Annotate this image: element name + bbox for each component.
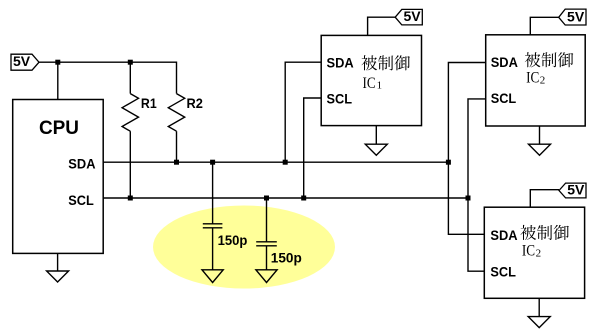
svg-text:SDA: SDA [68, 155, 95, 171]
svg-text:R2: R2 [187, 95, 204, 111]
svg-text:5V: 5V [403, 8, 421, 24]
svg-text:SDA: SDA [327, 54, 354, 70]
svg-text:SCL: SCL [68, 192, 94, 208]
svg-text:150p: 150p [218, 232, 248, 248]
svg-text:5V: 5V [567, 182, 585, 198]
junction SDA / IC1 [283, 160, 288, 165]
wire R1 top lead [129, 62, 131, 93]
wire SDA bus [103, 161, 448, 163]
junction SCL / IC1 [301, 196, 306, 201]
wire IC2 top SCL / IC2 bottom SCL to bus [468, 99, 486, 271]
label 被制御 IC2 (top) [525, 52, 574, 67]
junction SDA / R2 [174, 160, 179, 165]
svg-text:1: 1 [377, 79, 383, 91]
svg-text:5V: 5V [13, 53, 31, 69]
wire IC1 SDA to bus [285, 62, 321, 162]
CPU box U1 [13, 100, 104, 254]
capacitor C2 plates [256, 241, 277, 243]
svg-text:SCL: SCL [327, 90, 353, 106]
wire R1 bottom lead to SCL [129, 131, 131, 198]
ground under CPU [57, 253, 59, 271]
svg-text:IC: IC [522, 242, 535, 259]
wire IC2 top SDA / IC2 bottom SDA to bus [448, 63, 485, 235]
svg-text:2: 2 [540, 75, 546, 87]
capacitor C1 plates [203, 223, 223, 225]
IC1 box (controlled IC1) [321, 35, 421, 125]
IC2 top box (controlled IC2) [486, 35, 586, 126]
junction SCL / IC2 [466, 196, 471, 201]
highlight ellipse [153, 206, 335, 289]
svg-text:IC: IC [363, 75, 376, 92]
wire R2 top lead [176, 62, 178, 94]
svg-text:5V: 5V [567, 8, 585, 24]
wire 5V supply rail (top) [39, 61, 177, 63]
wire IC2 top power [530, 17, 558, 35]
label 被制御 IC1 [361, 55, 410, 70]
5V flag IC2 bottom [559, 183, 586, 198]
wire SCL bus [103, 197, 468, 199]
label 被制御 IC2 (bottom) [520, 225, 569, 240]
svg-text:IC: IC [526, 70, 539, 87]
ground under IC2 top [539, 126, 541, 144]
svg-text:SCL: SCL [490, 263, 516, 279]
svg-text:SDA: SDA [490, 227, 517, 243]
svg-text:R1: R1 [141, 95, 157, 111]
junction SDA / C1 [210, 160, 215, 165]
wire IC1 power [368, 17, 396, 35]
resistor R1 [122, 94, 138, 132]
svg-text:CPU: CPU [39, 118, 79, 139]
junction 5V rail / CPU power [55, 60, 60, 65]
wire IC1 SCL to bus [304, 98, 322, 198]
wire IC2 bottom power [530, 190, 559, 208]
svg-text:2: 2 [536, 248, 542, 260]
junction SCL / R1 [128, 196, 133, 201]
svg-text:150p: 150p [271, 250, 302, 266]
resistor R2 [168, 94, 184, 132]
capacitor C2 150p top lead [266, 198, 268, 242]
junction SCL / C2 [264, 196, 269, 201]
5V flag IC1 [395, 9, 422, 25]
ground under IC2 bottom [538, 298, 540, 316]
svg-text:SCL: SCL [491, 90, 517, 106]
junction 5V rail / R1 [128, 60, 133, 65]
wire CPU power drop [57, 62, 59, 100]
wire R2 bottom lead to SDA [176, 131, 178, 162]
5V flag (left, feeds rail) [11, 54, 39, 70]
capacitor C1 150p top lead [212, 162, 214, 224]
svg-text:SDA: SDA [491, 54, 518, 70]
junction SDA / IC2 [446, 160, 451, 165]
capacitor C1 bottom lead [212, 228, 214, 270]
IC2 bottom box (controlled IC2) [484, 207, 584, 298]
ground under C1 [202, 270, 223, 283]
ground under IC1 [375, 126, 377, 145]
capacitor C2 bottom lead [266, 246, 268, 270]
5V flag IC2 top [559, 9, 586, 25]
ground under C2 [256, 270, 277, 283]
